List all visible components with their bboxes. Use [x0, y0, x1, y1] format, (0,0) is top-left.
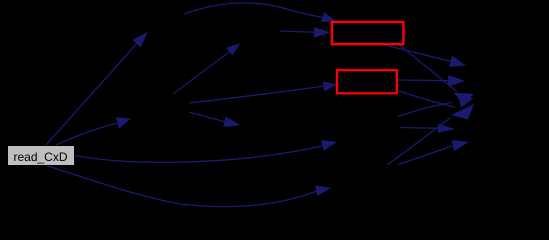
- svg-text:read_CxD: read_CxD: [13, 150, 67, 164]
